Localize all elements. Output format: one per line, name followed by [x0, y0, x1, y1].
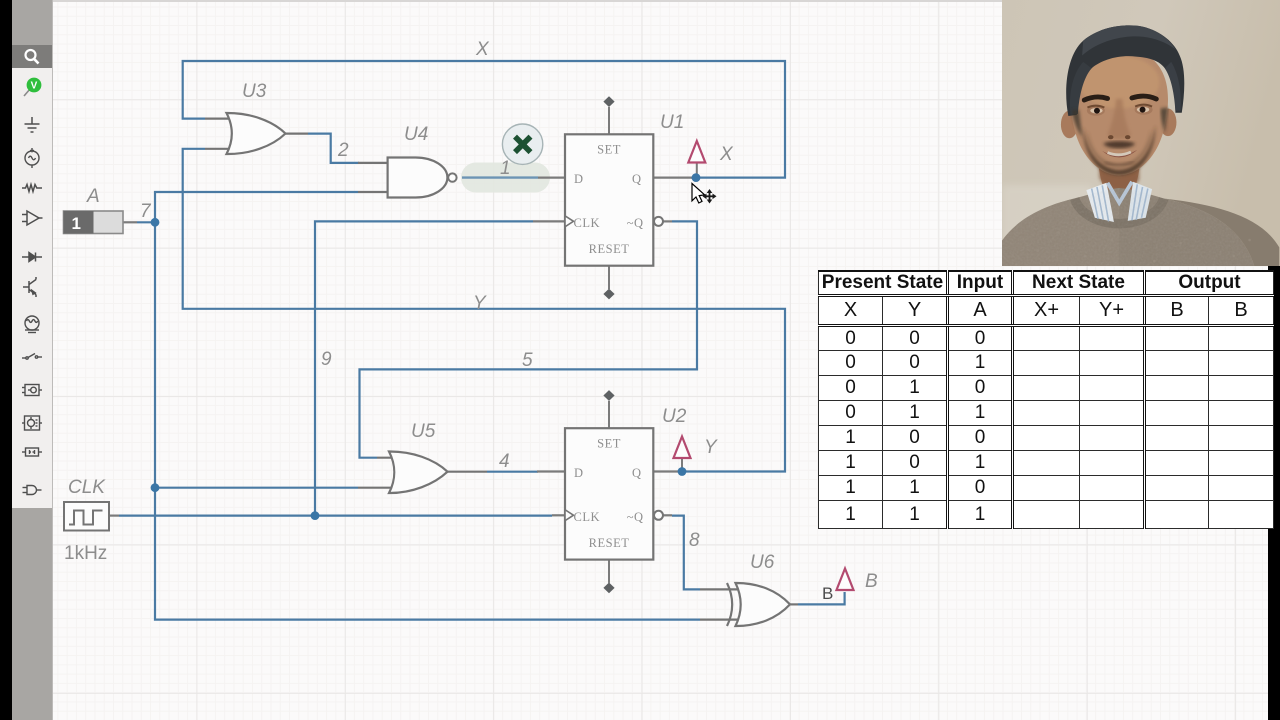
svg-text:CLK: CLK: [68, 477, 106, 498]
probe X: [688, 141, 705, 174]
webcam video overlay: [1002, 0, 1280, 266]
svg-text:4: 4: [499, 451, 510, 472]
svg-text:RESET: RESET: [589, 536, 630, 550]
face: [1070, 48, 1168, 175]
shirt collar: [1086, 183, 1114, 222]
wire net CLK branch up to U1.CLK: [315, 221, 533, 515]
wire net 5: U1.~Q to U5 upper input: [360, 221, 698, 457]
beard stubble: [1083, 126, 1155, 176]
NAND gate U4: [358, 158, 457, 198]
sweater texture flecks: [1015, 228, 1251, 273]
junction node X: [692, 173, 701, 182]
svg-text:Y: Y: [473, 293, 487, 314]
svg-text:U4: U4: [404, 124, 428, 145]
svg-text:~Q: ~Q: [627, 510, 644, 524]
svg-text:~Q: ~Q: [627, 216, 644, 230]
mouth: [1102, 150, 1137, 157]
wire net CLK: clock to junction to U2.CLK: [119, 514, 552, 516]
svg-text:X: X: [475, 39, 490, 60]
svg-text:1kHz: 1kHz: [64, 543, 107, 564]
svg-text:Q: Q: [632, 172, 642, 186]
OR gate U3: [205, 113, 308, 154]
OR gate U5: [358, 451, 487, 493]
wire net B: U6 output to probe B: [798, 592, 845, 604]
D flip-flop U1: [533, 96, 692, 299]
svg-text:2: 2: [337, 140, 349, 161]
wire net 7 branch to U4 lower input: [155, 192, 358, 222]
svg-text:B: B: [865, 571, 878, 592]
svg-text:5: 5: [522, 350, 533, 371]
probe Y: [674, 437, 691, 469]
mustache: [1103, 141, 1135, 148]
sideburns: [1072, 110, 1083, 138]
wire net 1: U4 output to U1.D: [462, 176, 538, 178]
input source A: [64, 211, 138, 234]
wire net X: U1.Q to U3 input loop: [183, 61, 785, 178]
left toolbar: [12, 0, 53, 720]
crew neck rib: [1075, 199, 1164, 224]
ears: [1061, 111, 1078, 139]
sweater: [987, 188, 1258, 283]
junction node CLK: [311, 511, 320, 520]
svg-text:Y: Y: [704, 437, 718, 458]
wire net 7: source A to junction: [137, 221, 155, 223]
svg-text:U1: U1: [660, 112, 684, 133]
junction node A-U5: [151, 483, 160, 492]
wire net 4: U5 output to U2.D: [487, 471, 538, 473]
svg-text:B: B: [822, 584, 833, 603]
svg-text:1: 1: [72, 214, 81, 233]
svg-text:RESET: RESET: [589, 242, 630, 256]
hair: [1066, 25, 1184, 116]
svg-text:A: A: [86, 186, 100, 207]
wire net Y: U2.Q to U3 input loop: [183, 149, 785, 472]
svg-text:CLK: CLK: [574, 510, 601, 524]
wire net A branch to U5 lower input: [155, 487, 358, 489]
mouse cursor: [692, 184, 717, 204]
svg-text:Q: Q: [632, 466, 642, 480]
delete button with X: [502, 124, 542, 164]
svg-text:7: 7: [140, 201, 152, 222]
truth table overlay: [818, 270, 1274, 529]
svg-text:X: X: [719, 144, 734, 165]
clock source CLK: [64, 502, 119, 531]
junction node Y: [678, 467, 687, 476]
svg-text:9: 9: [321, 349, 332, 370]
wire net 8: U2.~Q to U6 upper input: [672, 516, 700, 590]
wire highlight pill on net 1: [461, 163, 550, 193]
svg-text:SET: SET: [597, 143, 621, 157]
eyebrows: [1084, 97, 1107, 100]
svg-text:D: D: [574, 466, 584, 480]
svg-text:U2: U2: [662, 406, 687, 427]
eyes: [1087, 106, 1105, 116]
XOR gate U6: [700, 583, 798, 626]
svg-text:8: 8: [689, 530, 700, 551]
probe B: [822, 569, 854, 604]
D flip-flop U2: [537, 390, 681, 593]
svg-text:1: 1: [500, 158, 511, 179]
neck: [1097, 146, 1142, 203]
svg-text:U5: U5: [411, 421, 436, 442]
wire net 2: U3 output to U4 input: [308, 134, 359, 163]
svg-text:D: D: [574, 172, 584, 186]
junction node 7: [151, 218, 160, 227]
nose: [1108, 99, 1131, 139]
svg-text:CLK: CLK: [574, 216, 601, 230]
wire net A down branch: [155, 222, 700, 619]
svg-text:U3: U3: [242, 81, 267, 102]
svg-text:U6: U6: [750, 552, 775, 573]
svg-text:SET: SET: [597, 436, 621, 450]
